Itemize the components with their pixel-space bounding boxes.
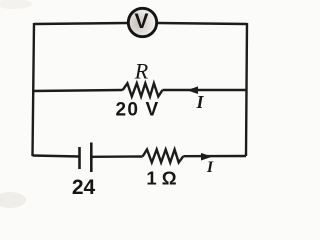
svg-text:24: 24 [72,176,96,199]
svg-text:V: V [134,10,148,33]
wire resistor to bottom-right corner [183,155,246,158]
wire top-left segment to voltmeter [34,23,128,24]
wire middle-right segment [163,89,247,91]
battery 24: short plate [78,147,81,169]
arrowhead current I (bottom wire, pointing right) [201,153,212,161]
wire middle-left segment [33,90,123,91]
battery 24: long plate [90,143,93,173]
wire battery to resistor [91,155,142,158]
svg-text:1 Ω: 1 Ω [146,168,176,189]
svg-text:I: I [195,92,204,112]
voltmeter U1 body [128,8,156,36]
resistor R zigzag [123,83,163,96]
smudge bottom-left [0,192,26,208]
svg-text:I: I [206,159,214,176]
arrowhead current I (middle wire, pointing left) [187,86,198,94]
wire bottom-left segment [33,156,80,157]
wire right vertical [246,23,247,156]
wire voltmeter to top-right corner [157,23,247,24]
smudge top-left [0,0,32,9]
svg-text:20 V: 20 V [116,100,160,121]
svg-text:R: R [134,59,149,84]
resistor 1 ohm zigzag [143,150,184,163]
wire left vertical [33,23,35,156]
